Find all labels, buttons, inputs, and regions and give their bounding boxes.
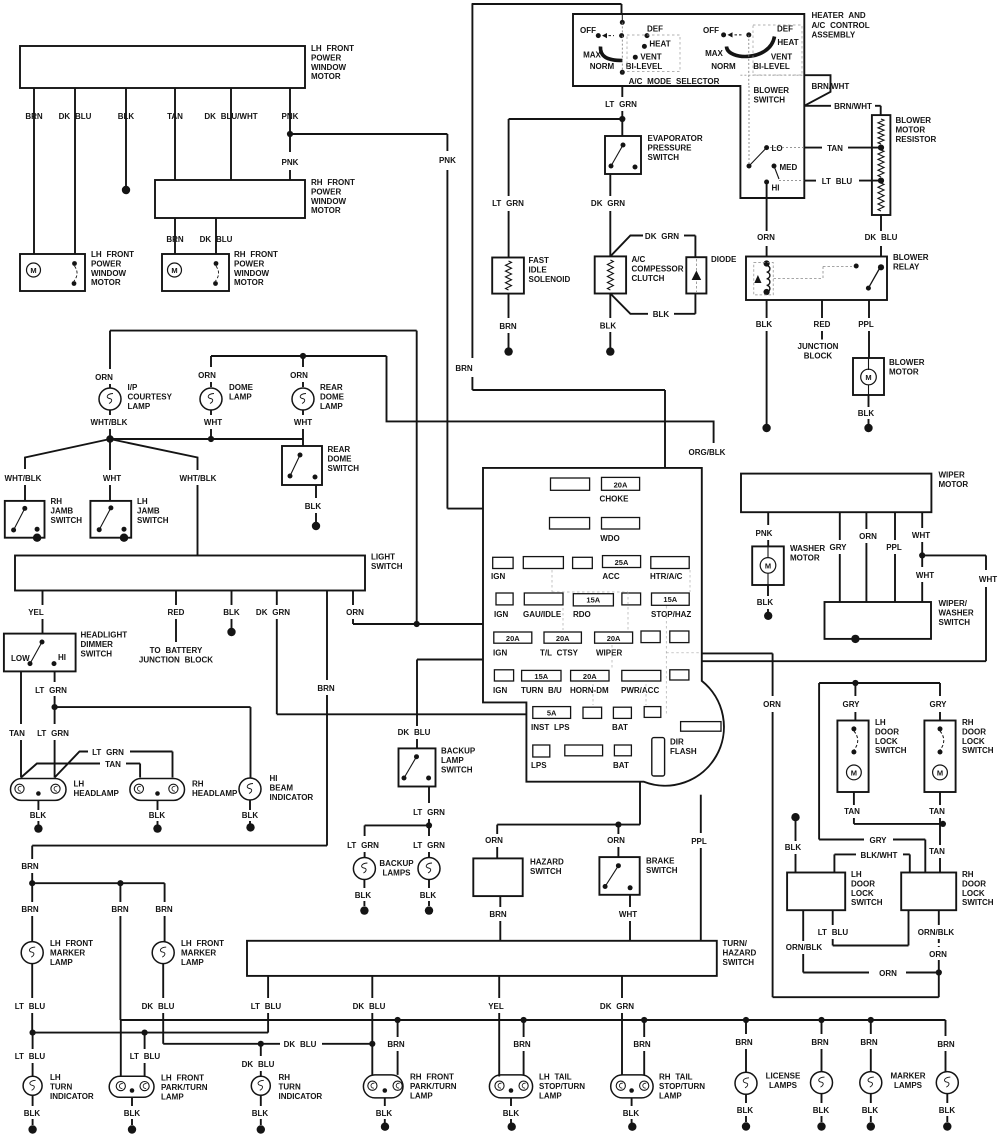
svg-text:LT BLU: LT BLU bbox=[130, 1052, 161, 1061]
wire GRY from wiper motor bbox=[839, 512, 841, 540]
wire BRN heater to fuse block bbox=[471, 4, 473, 358]
wire BRN from LH window connector bbox=[33, 88, 35, 254]
svg-text:SWITCH: SWITCH bbox=[137, 516, 169, 525]
svg-text:20A: 20A bbox=[556, 634, 570, 643]
RH door lock switch bbox=[901, 873, 956, 911]
svg-text:JUNCTION BLOCK: JUNCTION BLOCK bbox=[139, 656, 213, 665]
svg-text:BLK: BLK bbox=[420, 891, 437, 900]
diode bbox=[686, 257, 706, 293]
svg-text:WINDOW: WINDOW bbox=[311, 63, 347, 72]
wire DK BLU from RH connector bbox=[215, 218, 217, 254]
svg-text:HI: HI bbox=[270, 774, 278, 783]
svg-text:RDO: RDO bbox=[573, 610, 591, 619]
RH front power window motor bbox=[162, 254, 229, 291]
svg-text:DK BLU: DK BLU bbox=[398, 728, 431, 737]
wire DK GRN evaporator to clutch bbox=[609, 174, 611, 196]
svg-text:WASHER: WASHER bbox=[939, 608, 974, 617]
wire DK BLU from turn/hazard switch bbox=[371, 976, 373, 998]
node WHT junction bbox=[919, 552, 925, 558]
svg-text:LOCK: LOCK bbox=[962, 737, 985, 746]
svg-text:LPS: LPS bbox=[531, 761, 547, 770]
svg-text:LT BLU: LT BLU bbox=[15, 1002, 46, 1011]
wire BLK RH park lamp bbox=[384, 1098, 386, 1106]
svg-text:DK BLU: DK BLU bbox=[865, 233, 898, 242]
svg-text:OFF: OFF bbox=[580, 26, 596, 35]
fuse block internal dashed leads bbox=[665, 606, 667, 716]
svg-text:LAMPS: LAMPS bbox=[769, 1081, 798, 1090]
svg-text:I/P: I/P bbox=[128, 383, 138, 392]
svg-text:LAMPS: LAMPS bbox=[894, 1081, 923, 1090]
wire to heater assembly top bbox=[472, 3, 622, 5]
svg-text:BLOCK: BLOCK bbox=[804, 351, 833, 360]
svg-text:BLK: BLK bbox=[813, 1106, 830, 1115]
svg-text:NORM: NORM bbox=[711, 62, 736, 71]
svg-text:HEAT: HEAT bbox=[777, 38, 798, 47]
wire ORN dome lamp bus bbox=[211, 355, 387, 357]
svg-text:BLOWER: BLOWER bbox=[893, 253, 929, 262]
wire LT BLU to LH turn indicator bbox=[32, 1033, 34, 1049]
svg-text:LT GRN: LT GRN bbox=[413, 808, 445, 817]
svg-text:ORN/BLK: ORN/BLK bbox=[786, 943, 823, 952]
svg-text:BLK: BLK bbox=[118, 112, 135, 121]
svg-text:TO BATTERY: TO BATTERY bbox=[150, 646, 203, 655]
svg-text:PWR/ACC: PWR/ACC bbox=[621, 686, 659, 695]
svg-text:HEADLAMP: HEADLAMP bbox=[192, 789, 238, 798]
wire LT BLU from marker lamp bbox=[31, 964, 33, 998]
svg-text:T/L CTSY: T/L CTSY bbox=[540, 649, 579, 658]
svg-text:STOP/HAZ: STOP/HAZ bbox=[651, 610, 691, 619]
svg-text:GRY: GRY bbox=[829, 543, 847, 552]
svg-text:TAN: TAN bbox=[9, 729, 25, 738]
svg-text:BRN: BRN bbox=[155, 905, 173, 914]
svg-text:JUNCTION: JUNCTION bbox=[798, 342, 839, 351]
wire BRN to RH park lamp bbox=[397, 1020, 399, 1037]
svg-text:20A: 20A bbox=[614, 480, 628, 489]
wire BRN to license lamp 2 bbox=[821, 1020, 823, 1034]
svg-text:BLK/WHT: BLK/WHT bbox=[861, 851, 898, 860]
svg-text:DK GRN: DK GRN bbox=[591, 199, 625, 208]
svg-text:PPL: PPL bbox=[691, 837, 707, 846]
svg-text:LICENSE: LICENSE bbox=[766, 1072, 801, 1081]
wire BLK LH lower switch bbox=[791, 813, 799, 821]
svg-text:DK BLU: DK BLU bbox=[353, 1002, 386, 1011]
brake switch bbox=[599, 857, 639, 895]
svg-text:LH FRONT: LH FRONT bbox=[50, 939, 93, 948]
svg-text:DIR: DIR bbox=[670, 738, 684, 747]
left mode dial bbox=[620, 20, 625, 25]
fuse CHOKE row bbox=[551, 478, 590, 490]
svg-text:BLOWER: BLOWER bbox=[896, 116, 932, 125]
svg-text:VENT: VENT bbox=[640, 53, 661, 62]
svg-text:WHT/BLK: WHT/BLK bbox=[180, 474, 217, 483]
svg-text:BRN: BRN bbox=[860, 1038, 878, 1047]
svg-text:LOCK: LOCK bbox=[851, 889, 874, 898]
washer motor bbox=[752, 546, 784, 585]
svg-text:SWITCH: SWITCH bbox=[962, 746, 994, 755]
wire LT GRN from A/C mode selector bbox=[621, 86, 623, 97]
blower relay contact bbox=[878, 264, 884, 270]
wire LT BLU crossover bbox=[832, 910, 834, 925]
RH front power window motor connector box bbox=[155, 180, 305, 218]
fuse RDO row bbox=[496, 593, 513, 605]
blower motor resistor bbox=[872, 115, 891, 215]
rear dome switch bbox=[282, 446, 322, 485]
svg-text:LT BLU: LT BLU bbox=[822, 177, 853, 186]
ground wiper switch bbox=[851, 635, 859, 643]
svg-text:M: M bbox=[937, 769, 943, 778]
svg-text:ORN: ORN bbox=[879, 969, 897, 978]
wire DK BLU/WHT bbox=[230, 88, 232, 180]
svg-text:MARKER: MARKER bbox=[890, 1072, 925, 1081]
hi beam indicator bbox=[239, 778, 261, 800]
headlight dimmer switch bbox=[4, 634, 76, 672]
svg-text:5A: 5A bbox=[547, 709, 557, 718]
svg-text:RH: RH bbox=[962, 870, 974, 879]
svg-text:DK GRN: DK GRN bbox=[645, 232, 679, 241]
svg-text:BRN/WHT: BRN/WHT bbox=[812, 82, 850, 91]
svg-text:BACKUP: BACKUP bbox=[441, 747, 476, 756]
svg-text:SWITCH: SWITCH bbox=[441, 765, 473, 774]
wire BRN to LH marker lamp bbox=[31, 883, 33, 902]
svg-text:MAX: MAX bbox=[583, 51, 601, 60]
fuse ACC row bbox=[493, 557, 513, 568]
wire BLK hi beam indicator bbox=[249, 800, 251, 810]
svg-text:MED: MED bbox=[780, 163, 798, 172]
svg-text:JAMB: JAMB bbox=[137, 506, 160, 515]
svg-text:SWITCH: SWITCH bbox=[328, 464, 360, 473]
svg-text:WHT/BLK: WHT/BLK bbox=[5, 474, 42, 483]
svg-text:STOP/TURN: STOP/TURN bbox=[659, 1082, 705, 1091]
svg-text:BLK: BLK bbox=[355, 891, 372, 900]
svg-text:RED: RED bbox=[814, 320, 831, 329]
svg-text:TURN B/U: TURN B/U bbox=[521, 686, 562, 695]
svg-text:INDICATOR: INDICATOR bbox=[270, 793, 314, 802]
node dome bus junction bbox=[300, 353, 306, 359]
wire TAN from dimmer bbox=[20, 671, 22, 724]
svg-text:INDICATOR: INDICATOR bbox=[50, 1092, 94, 1101]
svg-text:BRN: BRN bbox=[513, 1040, 531, 1049]
svg-text:DEF: DEF bbox=[777, 25, 793, 34]
LH front power window motor bbox=[20, 254, 85, 291]
svg-text:BEAM: BEAM bbox=[270, 783, 294, 792]
svg-text:WINDOW: WINDOW bbox=[234, 269, 270, 278]
svg-text:IDLE: IDLE bbox=[529, 265, 548, 274]
wire BRN to LH tail lamp bbox=[523, 1020, 525, 1037]
svg-text:POWER: POWER bbox=[311, 187, 341, 196]
svg-text:WHT: WHT bbox=[979, 575, 997, 584]
svg-text:M: M bbox=[30, 266, 36, 275]
svg-text:MOTOR: MOTOR bbox=[896, 125, 926, 134]
LH tail stop/turn lamp bbox=[489, 1075, 532, 1098]
license lamp 1 bbox=[735, 1072, 757, 1094]
svg-text:ORN: ORN bbox=[485, 836, 503, 845]
wire TAN headlamp crossover bbox=[21, 764, 100, 778]
svg-text:LO: LO bbox=[772, 144, 783, 153]
fuse block accessory box bbox=[681, 722, 721, 732]
svg-text:WHT: WHT bbox=[204, 418, 222, 427]
svg-text:BRN/WHT: BRN/WHT bbox=[834, 102, 872, 111]
wire WHT/BLK to RH jamb switch bbox=[25, 439, 110, 469]
svg-text:COURTESY: COURTESY bbox=[128, 392, 173, 401]
wire BLK from clutch bbox=[609, 294, 611, 319]
svg-text:LH FRONT: LH FRONT bbox=[161, 1074, 204, 1083]
svg-text:DK BLU: DK BLU bbox=[200, 235, 233, 244]
svg-text:TURN: TURN bbox=[279, 1082, 301, 1091]
ground clutch BLK bbox=[606, 347, 614, 355]
wire DK BLU from LH window connector bbox=[74, 88, 76, 254]
fuse WDO row bbox=[550, 518, 590, 530]
wire BRN marker bus bbox=[32, 882, 164, 884]
svg-text:LH: LH bbox=[137, 497, 148, 506]
svg-text:LT BLU: LT BLU bbox=[15, 1052, 46, 1061]
LH door lock motor bbox=[837, 721, 868, 793]
wire YEL from light switch bbox=[42, 591, 44, 606]
LH front marker lamp 2 bbox=[152, 942, 174, 964]
wire BLK from washer motor bbox=[767, 585, 769, 596]
svg-text:LT GRN: LT GRN bbox=[605, 100, 637, 109]
wire WHT/BLK bus bbox=[110, 438, 303, 440]
svg-text:BLK: BLK bbox=[24, 1109, 41, 1118]
svg-text:WINDOW: WINDOW bbox=[91, 269, 127, 278]
svg-text:POWER: POWER bbox=[311, 53, 341, 62]
svg-text:MOTOR: MOTOR bbox=[311, 206, 341, 215]
svg-text:SWITCH: SWITCH bbox=[530, 867, 562, 876]
svg-text:15A: 15A bbox=[586, 596, 600, 605]
wire PNK from wiper motor bbox=[767, 512, 769, 525]
svg-text:MOTOR: MOTOR bbox=[91, 278, 121, 287]
LH front power window motor connector box bbox=[20, 46, 305, 88]
svg-text:BLK: BLK bbox=[785, 843, 802, 852]
svg-text:LT BLU: LT BLU bbox=[251, 1002, 282, 1011]
svg-text:MAX: MAX bbox=[705, 49, 723, 58]
svg-text:LAMP: LAMP bbox=[50, 958, 73, 967]
svg-text:20A: 20A bbox=[607, 634, 621, 643]
svg-text:DOME: DOME bbox=[328, 454, 353, 463]
node LT GRN junction bbox=[619, 116, 625, 122]
svg-text:SWITCH: SWITCH bbox=[646, 866, 678, 875]
wire GRY to RH lower switch bbox=[818, 683, 820, 840]
svg-text:A/C CONTROL: A/C CONTROL bbox=[812, 21, 870, 30]
svg-text:DK BLU: DK BLU bbox=[242, 1060, 275, 1069]
svg-text:LT GRN: LT GRN bbox=[492, 199, 524, 208]
svg-text:TAN: TAN bbox=[105, 760, 121, 769]
svg-text:IGN: IGN bbox=[491, 572, 505, 581]
svg-text:ASSEMBLY: ASSEMBLY bbox=[812, 31, 856, 40]
right backup lamp bbox=[418, 858, 440, 880]
backup lamp switch bbox=[399, 748, 436, 786]
RH jamb switch bbox=[5, 501, 45, 538]
svg-text:HORN-DM: HORN-DM bbox=[570, 686, 609, 695]
svg-text:LH FRONT: LH FRONT bbox=[181, 939, 224, 948]
svg-text:LT GRN: LT GRN bbox=[92, 748, 124, 757]
svg-text:BRN: BRN bbox=[489, 910, 507, 919]
svg-text:YEL: YEL bbox=[488, 1002, 504, 1011]
wire BLK LH tail lamp bbox=[510, 1098, 512, 1106]
wire TAN RH door motor bbox=[939, 792, 941, 805]
fuse LPS row bbox=[533, 745, 550, 757]
svg-text:STOP/TURN: STOP/TURN bbox=[539, 1082, 585, 1091]
svg-text:BLK: BLK bbox=[223, 608, 240, 617]
RH headlamp bbox=[130, 779, 185, 801]
wire BLK license lamp 2 bbox=[821, 1094, 823, 1103]
wire ORN from light switch to fuse block bbox=[352, 591, 354, 606]
svg-text:BLK: BLK bbox=[305, 502, 322, 511]
wire BLK license lamp 1 bbox=[745, 1094, 747, 1103]
svg-text:A/C MODE SELECTOR: A/C MODE SELECTOR bbox=[629, 77, 720, 86]
wire WHT rear dome lamp to switch bbox=[302, 410, 304, 415]
svg-text:LAMP: LAMP bbox=[181, 958, 204, 967]
svg-text:BLK: BLK bbox=[503, 1109, 520, 1118]
rear dome lamp bbox=[292, 388, 314, 410]
wire PNK vertical into RH connector bbox=[289, 88, 291, 152]
svg-text:BRN: BRN bbox=[455, 364, 473, 373]
marker lamp 2 bbox=[936, 1072, 958, 1094]
svg-text:SWITCH: SWITCH bbox=[875, 746, 907, 755]
svg-text:RESISTOR: RESISTOR bbox=[896, 135, 937, 144]
wire ORN blower switch to relay bbox=[766, 182, 768, 231]
svg-text:BAT: BAT bbox=[612, 723, 628, 732]
wire BRN from fast idle solenoid bbox=[508, 294, 510, 318]
wire BLK from blower relay bbox=[766, 300, 768, 318]
svg-text:TAN: TAN bbox=[167, 112, 183, 121]
svg-text:PPL: PPL bbox=[886, 543, 902, 552]
svg-text:TAN: TAN bbox=[844, 807, 860, 816]
svg-text:BLK: BLK bbox=[149, 811, 166, 820]
RH front park/turn lamp bbox=[363, 1075, 403, 1098]
wire BRN/WHT to blower motor resistor bbox=[804, 105, 831, 107]
svg-text:BLK: BLK bbox=[862, 1106, 879, 1115]
svg-text:GRY: GRY bbox=[929, 700, 947, 709]
wire to LH park lamp left bbox=[120, 1020, 122, 1076]
svg-text:DOOR: DOOR bbox=[875, 727, 899, 736]
svg-text:DIODE: DIODE bbox=[711, 255, 737, 264]
svg-text:HAZARD: HAZARD bbox=[530, 858, 564, 867]
svg-text:ORN/BLK: ORN/BLK bbox=[918, 928, 955, 937]
svg-text:SWITCH: SWITCH bbox=[51, 516, 83, 525]
svg-text:BLK: BLK bbox=[757, 598, 774, 607]
svg-text:WINDOW: WINDOW bbox=[311, 197, 347, 206]
wire YEL from turn/hazard switch bbox=[498, 976, 500, 998]
svg-text:20A: 20A bbox=[583, 672, 597, 681]
svg-text:RH: RH bbox=[192, 780, 204, 789]
wire BRN to park lamp feed bbox=[119, 883, 121, 902]
wire ORN/BLK from LH switch bbox=[802, 910, 804, 941]
left backup lamp bbox=[353, 858, 375, 880]
svg-text:HI: HI bbox=[772, 184, 780, 193]
svg-text:BACKUP: BACKUP bbox=[379, 859, 414, 868]
wire LT GRN headlamp crossover bbox=[55, 752, 88, 778]
dir flash bbox=[652, 738, 665, 776]
svg-text:HEADLIGHT: HEADLIGHT bbox=[81, 631, 128, 640]
svg-text:ORN: ORN bbox=[757, 233, 775, 242]
svg-text:LT GRN: LT GRN bbox=[347, 841, 379, 850]
svg-text:BI-LEVEL: BI-LEVEL bbox=[753, 62, 790, 71]
wire BRN/WHT flag bbox=[804, 75, 830, 106]
svg-text:WHT: WHT bbox=[294, 418, 312, 427]
svg-text:IGN: IGN bbox=[493, 649, 507, 658]
wire DK GRN from turn/hazard switch bbox=[621, 976, 623, 998]
svg-text:DOME: DOME bbox=[229, 383, 254, 392]
svg-text:BLK: BLK bbox=[376, 1109, 393, 1118]
svg-text:RH: RH bbox=[51, 497, 63, 506]
wire DK BLU from marker lamp 2 bbox=[162, 964, 164, 998]
svg-text:MARKER: MARKER bbox=[181, 948, 216, 957]
svg-text:BLOWER: BLOWER bbox=[754, 86, 790, 95]
svg-text:SWITCH: SWITCH bbox=[371, 562, 403, 571]
RH door lock motor bbox=[924, 721, 955, 793]
wire BRN to license lamp 1 bbox=[745, 1020, 747, 1034]
wire BRN to RH tail lamp bbox=[643, 1020, 645, 1037]
svg-text:MARKER: MARKER bbox=[50, 948, 85, 957]
svg-text:DK GRN: DK GRN bbox=[256, 608, 290, 617]
svg-text:GRY: GRY bbox=[869, 836, 887, 845]
svg-text:PARK/TURN: PARK/TURN bbox=[161, 1083, 208, 1092]
svg-text:BLOWER: BLOWER bbox=[889, 358, 925, 367]
svg-text:RH TAIL: RH TAIL bbox=[659, 1073, 693, 1082]
svg-text:YEL: YEL bbox=[28, 608, 44, 617]
svg-text:ORN: ORN bbox=[290, 371, 308, 380]
svg-text:A/C: A/C bbox=[632, 255, 646, 264]
RH tail stop/turn lamp bbox=[611, 1075, 653, 1098]
svg-text:BRN: BRN bbox=[111, 905, 129, 914]
svg-text:MOTOR: MOTOR bbox=[311, 72, 341, 81]
svg-text:LIGHT: LIGHT bbox=[371, 553, 395, 562]
svg-text:BLK: BLK bbox=[858, 409, 875, 418]
svg-text:WHT: WHT bbox=[103, 474, 121, 483]
marker lamp 1 bbox=[860, 1072, 882, 1094]
wire WHT dome lamp to bus bbox=[210, 410, 212, 415]
blower relay box bbox=[746, 257, 887, 301]
wire BLK marker lamp 2 bbox=[946, 1094, 948, 1103]
LH front marker lamp bbox=[21, 942, 43, 964]
svg-text:BRN: BRN bbox=[166, 235, 184, 244]
svg-text:LOCK: LOCK bbox=[962, 889, 985, 898]
ground washer BLK bbox=[764, 612, 772, 620]
svg-text:RH: RH bbox=[279, 1073, 291, 1082]
I/P courtesy lamp bbox=[99, 388, 121, 410]
wire PPL dir flash to turn/hazard switch bbox=[700, 795, 702, 833]
wire BLK LH turn indicator bbox=[32, 1095, 34, 1106]
svg-text:HEAT: HEAT bbox=[649, 40, 670, 49]
wire DK GRN from light switch bbox=[276, 591, 278, 606]
svg-text:BRN: BRN bbox=[937, 1040, 955, 1049]
svg-text:BAT: BAT bbox=[613, 761, 629, 770]
svg-text:LOCK: LOCK bbox=[875, 737, 898, 746]
svg-text:DK GRN: DK GRN bbox=[600, 1002, 634, 1011]
svg-text:LH: LH bbox=[50, 1073, 61, 1082]
svg-text:TAN: TAN bbox=[827, 144, 843, 153]
svg-text:WIPER: WIPER bbox=[939, 471, 965, 480]
wire BRN hazard to turn/hazard switch bbox=[499, 896, 501, 907]
svg-text:LAMP: LAMP bbox=[320, 402, 343, 411]
svg-text:DOOR: DOOR bbox=[962, 727, 986, 736]
svg-text:CLUTCH: CLUTCH bbox=[632, 274, 665, 283]
fuse INST row bbox=[533, 707, 571, 719]
svg-text:BLK: BLK bbox=[600, 322, 617, 331]
svg-text:WIPER: WIPER bbox=[596, 649, 622, 658]
svg-text:ORN: ORN bbox=[763, 700, 781, 709]
svg-text:BRN: BRN bbox=[735, 1038, 753, 1047]
svg-text:RH FRONT: RH FRONT bbox=[410, 1073, 454, 1082]
svg-text:OFF: OFF bbox=[703, 26, 719, 35]
svg-text:NORM: NORM bbox=[590, 62, 615, 71]
svg-text:BLK: BLK bbox=[653, 310, 670, 319]
svg-text:MOTOR: MOTOR bbox=[234, 278, 264, 287]
svg-text:WHT: WHT bbox=[916, 571, 934, 580]
wire DK GRN clutch to diode bbox=[610, 236, 643, 257]
svg-text:LAMPS: LAMPS bbox=[383, 868, 412, 877]
wire ORN from wiper motor bbox=[865, 512, 867, 529]
